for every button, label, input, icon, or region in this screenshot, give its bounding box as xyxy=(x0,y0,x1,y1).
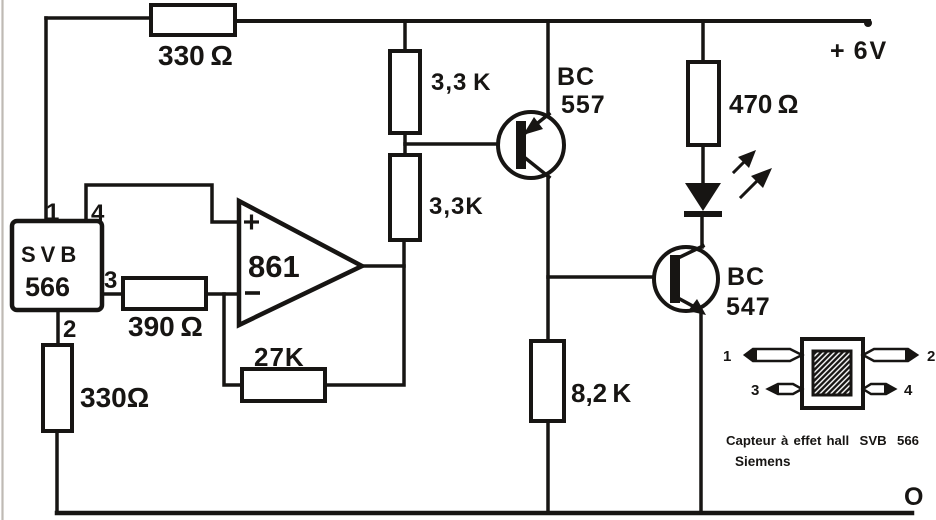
wire 27K right to output node xyxy=(325,240,404,385)
wire junction between 3,3K resistors xyxy=(403,133,407,155)
hall sensor SVB 566 xyxy=(12,221,102,310)
wire BC557 collector down xyxy=(546,177,550,341)
wire rail tap to 3,3K upper xyxy=(403,21,407,51)
LED light arrow 2 xyxy=(741,168,772,197)
wire 330 ohm to bottom rail xyxy=(55,431,59,513)
svg-text:O: O xyxy=(904,483,923,511)
sensor lead 2 xyxy=(863,348,918,362)
sensor lead 1 xyxy=(744,348,802,362)
op-amp minus xyxy=(245,291,260,295)
svg-text:2: 2 xyxy=(927,348,935,365)
svg-text:557: 557 xyxy=(561,91,606,119)
svg-text:SVB: SVB xyxy=(21,242,81,267)
wire pin 4 to op-amp + input xyxy=(86,185,239,222)
transistor Q1 BC557 xyxy=(498,112,564,178)
resistor 3,3K lower xyxy=(390,155,420,240)
wire pin 3 to 390 ohm xyxy=(102,292,123,296)
svg-text:470 Ω: 470 Ω xyxy=(729,89,798,119)
svg-text:566: 566 xyxy=(25,272,70,302)
wire rail tap to 470 ohm xyxy=(701,21,705,62)
svg-text:4: 4 xyxy=(904,382,913,399)
LED light arrow 1 xyxy=(734,150,756,172)
wire 470 ohm to LED xyxy=(701,145,705,184)
svg-text:330 Ω: 330 Ω xyxy=(158,40,233,71)
wire BC547 emitter to bottom rail xyxy=(699,313,703,513)
LED diode xyxy=(684,183,722,217)
svg-text:BC: BC xyxy=(557,63,595,91)
svg-text:Siemens: Siemens xyxy=(735,454,791,469)
wire top-left horizontal xyxy=(46,16,153,20)
wire BC557 collector to BC547 base xyxy=(548,275,673,279)
wire pin 2 down xyxy=(56,310,60,346)
svg-text:27K: 27K xyxy=(254,342,305,372)
resistor 330 ohm top xyxy=(151,5,235,35)
transistor Q2 BC547 xyxy=(654,246,718,315)
wire op-amp output xyxy=(362,264,404,268)
node +6V rail end dot xyxy=(864,19,872,27)
svg-text:2: 2 xyxy=(63,316,76,343)
sensor package chip hatched xyxy=(813,351,851,395)
svg-text:BC: BC xyxy=(727,263,765,291)
svg-text:+ 6V: + 6V xyxy=(830,37,888,65)
resistor 27K xyxy=(242,369,325,401)
wire 390 ohm to op-amp - input xyxy=(206,292,239,296)
svg-text:1: 1 xyxy=(723,348,731,365)
svg-text:390 Ω: 390 Ω xyxy=(128,311,203,342)
svg-text:Capteur à effet hall SVB 566: Capteur à effet hall SVB 566 xyxy=(726,433,919,448)
resistor 390 ohm xyxy=(123,278,206,309)
wire 8,2K to bottom rail xyxy=(546,421,550,513)
svg-text:861: 861 xyxy=(248,249,300,284)
wire +6V top rail xyxy=(235,19,869,23)
resistor 330 ohm bottom-left xyxy=(43,345,72,431)
wire top-left vertical xyxy=(44,18,48,222)
svg-text:3,3K: 3,3K xyxy=(429,193,484,220)
wire divider node to BC557 base xyxy=(405,142,519,146)
scan edge left border xyxy=(1,0,3,520)
svg-text:8,2 K: 8,2 K xyxy=(571,378,631,408)
op-amp U 861 triangle xyxy=(239,201,362,325)
svg-text:547: 547 xyxy=(726,293,771,321)
svg-text:3: 3 xyxy=(751,382,759,399)
op-amp plus xyxy=(244,215,259,230)
resistor 470 ohm xyxy=(688,62,719,145)
svg-text:3,3 K: 3,3 K xyxy=(431,69,492,96)
resistor 8,2K xyxy=(531,341,564,421)
wire feedback tap down to 27K xyxy=(224,294,242,385)
wire bottom rail 0V xyxy=(57,511,912,516)
sensor lead 4 xyxy=(863,383,896,395)
svg-text:1: 1 xyxy=(46,199,59,226)
svg-text:330Ω: 330Ω xyxy=(80,382,149,413)
svg-text:3: 3 xyxy=(104,267,117,294)
svg-text:4: 4 xyxy=(91,200,105,227)
wire LED to BC547 collector xyxy=(700,217,704,247)
wire BC557 emitter to rail xyxy=(546,21,550,114)
resistor 3,3K upper xyxy=(390,51,420,133)
sensor lead 3 xyxy=(767,383,802,395)
sensor package outline xyxy=(802,339,863,408)
